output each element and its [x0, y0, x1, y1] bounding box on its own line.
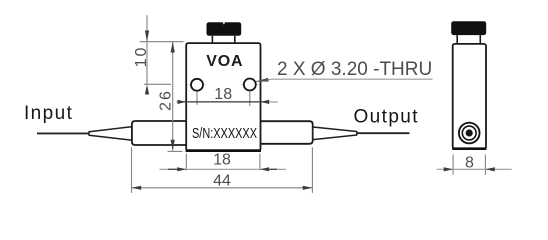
svg-text:18: 18 [214, 86, 232, 103]
dim 44 arrow right [303, 186, 313, 190]
input fiber line [37, 132, 90, 134]
dim 18b arrow right [260, 100, 269, 104]
svg-text:Output: Output [354, 106, 419, 127]
dim 44 arrow left [132, 186, 142, 190]
svg-text:18: 18 [213, 151, 231, 168]
dim 18b hole extension stubs [196, 91, 198, 105]
dim 26 arrow up [171, 42, 175, 53]
dim 8 dimension line [437, 168, 512, 170]
dim 44 dimension line [132, 187, 313, 189]
dim 26 dimension line [172, 42, 174, 151]
dim 18 arrow left [177, 167, 186, 171]
dim 44 left extension line [131, 147, 133, 193]
svg-text:44: 44 [213, 173, 231, 190]
front view body [186, 43, 260, 151]
dim 8 arrow left [444, 167, 453, 171]
dim 10 arrow down [145, 31, 149, 42]
input ferrule [132, 121, 187, 145]
dim 8 arrow right [485, 167, 494, 171]
svg-text:10: 10 [133, 46, 150, 68]
dim 26 arrow down [171, 140, 175, 151]
dim 18b arrow left [178, 100, 187, 104]
hole leader line [256, 79, 433, 81]
dim 10 top extension line [140, 41, 184, 43]
dim 18 left extension line [185, 154, 187, 171]
dim 8 right extension line [484, 155, 486, 175]
side knob stem [456, 35, 458, 44]
front knob stem [211, 36, 213, 43]
svg-text:VOA: VOA [206, 53, 243, 70]
dim 18b dimension line [176, 101, 277, 103]
dim 26 bottom extension dash [168, 150, 183, 152]
input boot taper [89, 127, 132, 141]
dim 10 dimension line [146, 15, 148, 84]
side view connector rings [459, 123, 480, 144]
dim 18 dimension line [160, 168, 287, 170]
svg-text:26: 26 [158, 89, 175, 111]
hole leader arrow [255, 78, 268, 82]
output boot taper [313, 127, 357, 140]
dim 18 arrow right [260, 167, 269, 171]
mounting hole left [188, 84, 206, 86]
side view knob [451, 21, 486, 35]
output ferrule [260, 121, 313, 144]
output fiber line [357, 132, 410, 134]
svg-text:Input: Input [24, 103, 73, 124]
dim 44 right extension line [311, 147, 313, 193]
side view body [453, 44, 486, 149]
dim 8 left extension line [452, 155, 454, 175]
dim 18 right extension line [259, 154, 261, 171]
dim 10 hole-center extension line [144, 83, 171, 85]
svg-text:8: 8 [465, 154, 474, 171]
svg-text:S/N:XXXXXX: S/N:XXXXXX [192, 124, 257, 141]
mounting hole right [241, 84, 259, 86]
dim 10 arrow up [145, 84, 149, 94]
svg-text:2 X Ø 3.20 -THRU: 2 X Ø 3.20 -THRU [277, 59, 432, 80]
front view knob [207, 22, 242, 36]
front body thick bottom edge [186, 149, 261, 152]
side body thick bottom edge [452, 147, 486, 150]
